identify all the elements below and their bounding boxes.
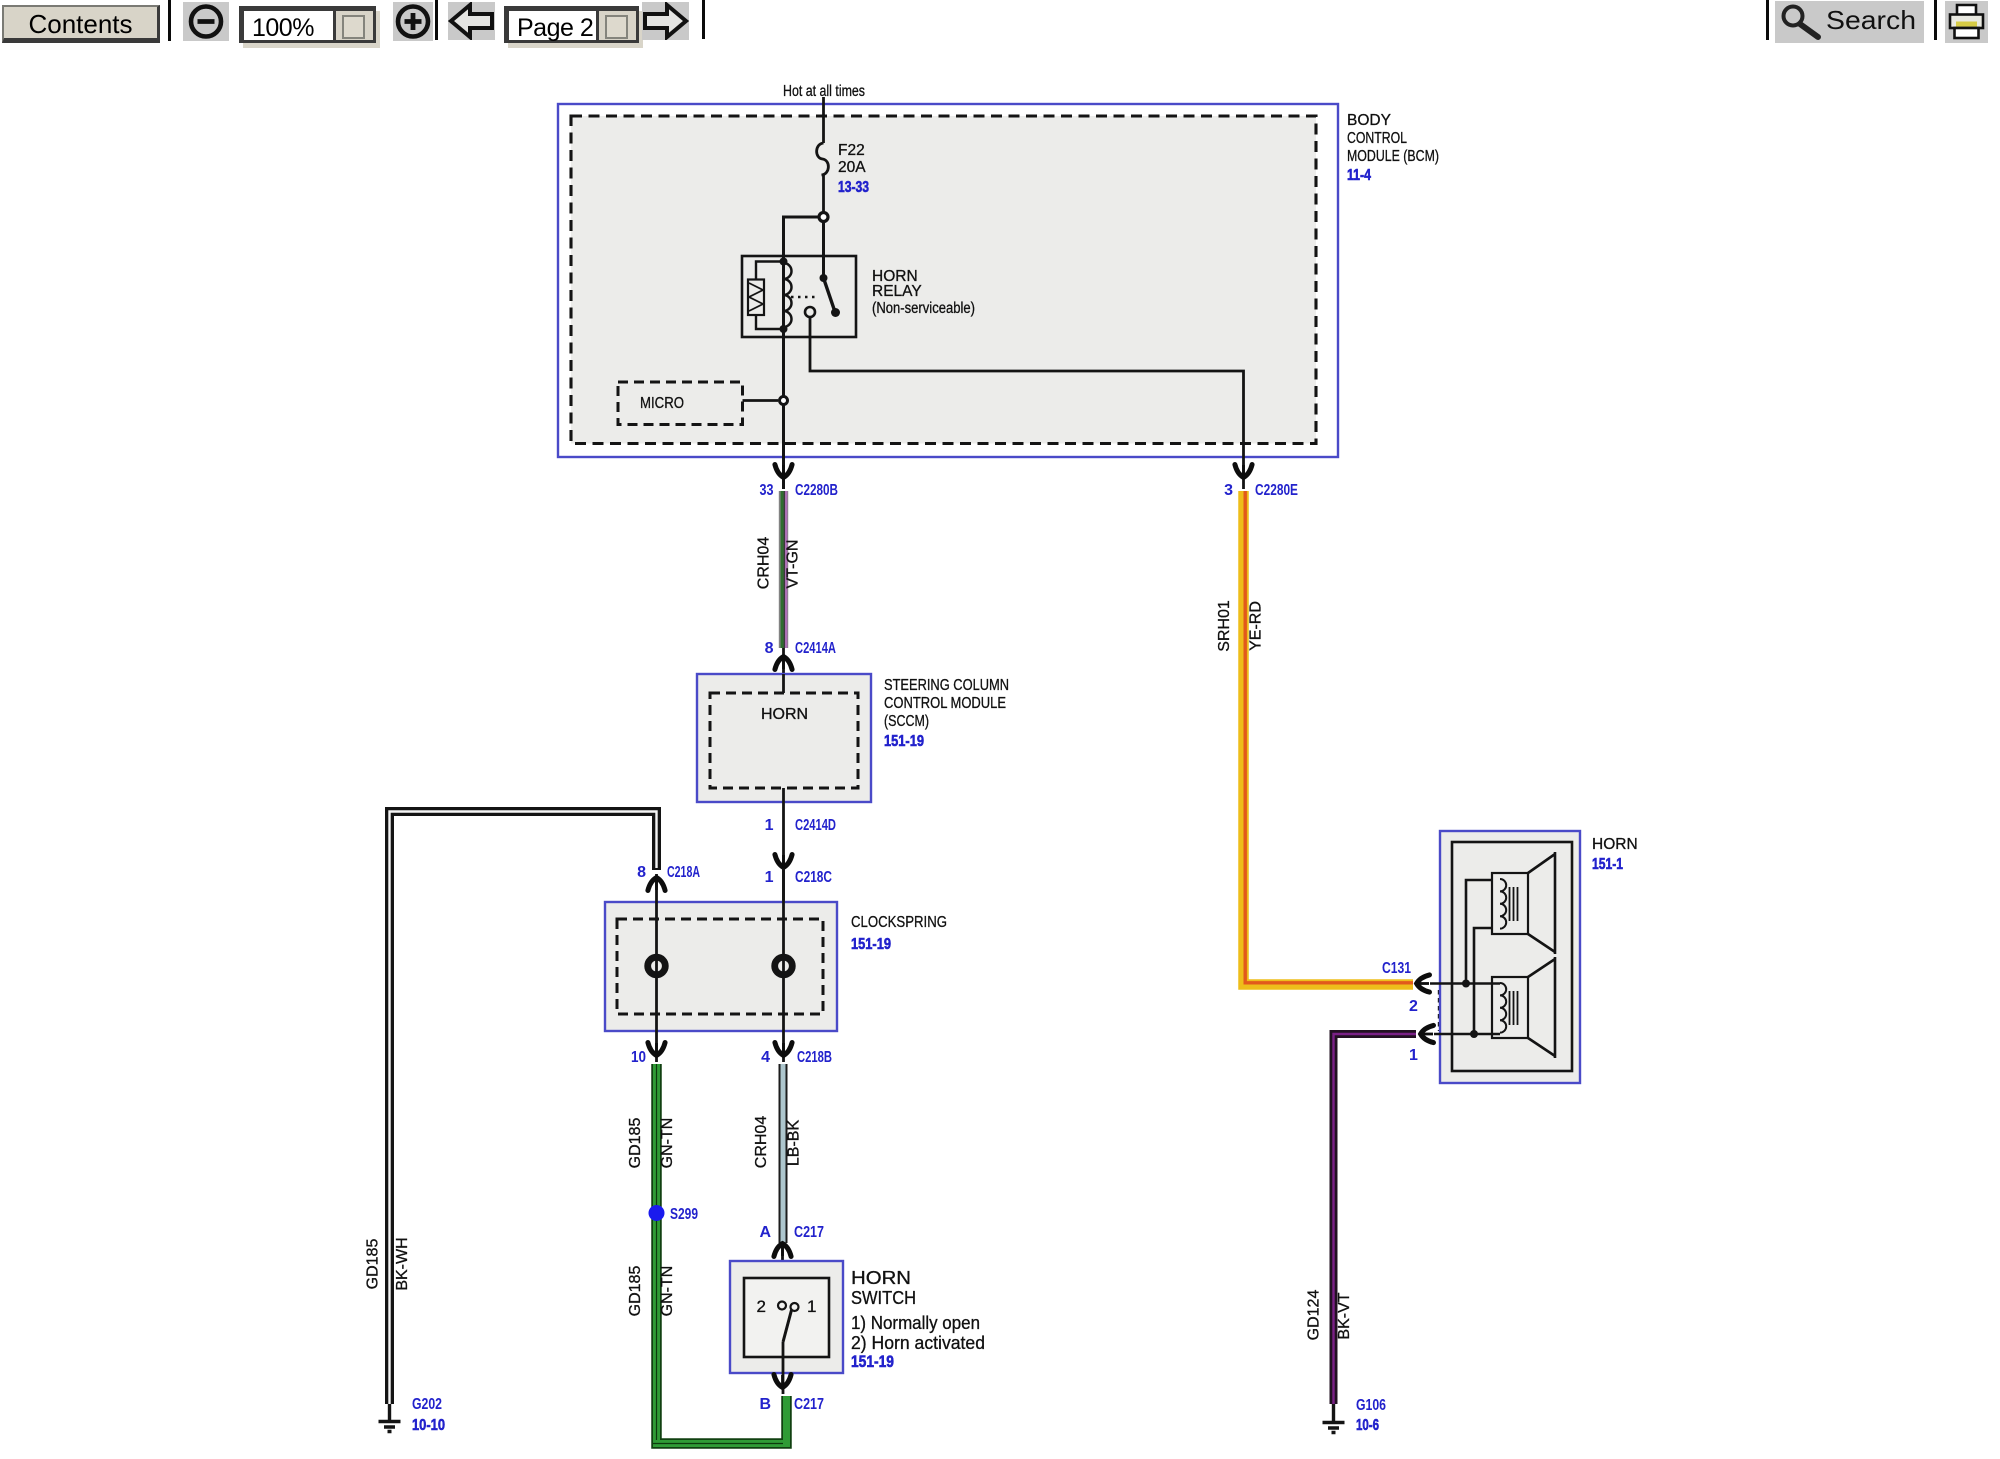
- svg-text:HORN: HORN: [1592, 836, 1638, 853]
- svg-text:151-19: 151-19: [851, 1353, 894, 1371]
- svg-text:11-4: 11-4: [1347, 167, 1371, 184]
- svg-text:C218A: C218A: [667, 864, 700, 881]
- svg-text:C218B: C218B: [797, 1049, 832, 1066]
- svg-text:1: 1: [765, 817, 774, 834]
- svg-text:B: B: [759, 1396, 771, 1413]
- svg-text:(Non-serviceable): (Non-serviceable): [872, 300, 975, 317]
- svg-text:CONTROL MODULE: CONTROL MODULE: [884, 695, 1006, 712]
- svg-text:2: 2: [1409, 998, 1418, 1015]
- svg-text:1) Normally open: 1) Normally open: [851, 1313, 980, 1333]
- svg-text:C218C: C218C: [795, 869, 832, 886]
- svg-text:20A: 20A: [838, 159, 866, 176]
- svg-text:4: 4: [761, 1049, 770, 1066]
- svg-text:10-10: 10-10: [412, 1417, 445, 1434]
- svg-text:C2414D: C2414D: [795, 817, 836, 834]
- svg-text:CONTROL: CONTROL: [1347, 130, 1407, 147]
- svg-text:(SCCM): (SCCM): [884, 713, 929, 730]
- svg-text:8: 8: [637, 864, 646, 881]
- svg-text:BODY: BODY: [1347, 112, 1391, 129]
- svg-text:C217: C217: [794, 1396, 824, 1413]
- svg-text:GD185: GD185: [365, 1239, 382, 1290]
- svg-text:C131: C131: [1382, 960, 1411, 977]
- svg-text:GN-TN: GN-TN: [659, 1266, 676, 1317]
- svg-text:G202: G202: [412, 1396, 442, 1413]
- svg-text:151-19: 151-19: [884, 733, 924, 750]
- svg-text:C217: C217: [794, 1224, 824, 1241]
- svg-text:HORN: HORN: [851, 1268, 911, 1288]
- svg-text:10-6: 10-6: [1356, 1417, 1379, 1434]
- svg-text:1: 1: [1409, 1047, 1418, 1064]
- svg-text:SRH01: SRH01: [1216, 600, 1233, 652]
- svg-text:VT-GN: VT-GN: [785, 540, 802, 589]
- svg-text:RELAY: RELAY: [872, 283, 922, 300]
- svg-text:F22: F22: [838, 142, 865, 159]
- svg-text:LB-BK: LB-BK: [786, 1120, 803, 1167]
- svg-text:C2280E: C2280E: [1255, 482, 1298, 499]
- svg-text:S299: S299: [670, 1206, 698, 1223]
- svg-text:GN-TN: GN-TN: [659, 1118, 676, 1169]
- svg-text:CLOCKSPRING: CLOCKSPRING: [851, 914, 947, 931]
- svg-text:151-1: 151-1: [1592, 856, 1623, 873]
- svg-text:G106: G106: [1356, 1397, 1386, 1414]
- svg-text:BK-VT: BK-VT: [1336, 1292, 1353, 1339]
- svg-text:13-33: 13-33: [838, 179, 869, 196]
- svg-text:MICRO: MICRO: [640, 395, 684, 412]
- svg-text:8: 8: [765, 640, 774, 657]
- svg-text:BK-WH: BK-WH: [394, 1237, 411, 1290]
- svg-text:HORN: HORN: [761, 706, 808, 723]
- svg-text:C2280B: C2280B: [795, 482, 838, 499]
- svg-text:CRH04: CRH04: [756, 537, 773, 590]
- svg-text:10: 10: [631, 1049, 646, 1066]
- svg-text:33: 33: [760, 482, 774, 499]
- svg-text:C2414A: C2414A: [795, 640, 836, 657]
- svg-text:2: 2: [757, 1297, 766, 1316]
- svg-text:GD185: GD185: [627, 1118, 644, 1169]
- svg-text:1: 1: [765, 869, 774, 886]
- svg-text:A: A: [759, 1224, 771, 1241]
- svg-text:CRH04: CRH04: [753, 1116, 770, 1169]
- svg-text:STEERING COLUMN: STEERING COLUMN: [884, 677, 1009, 694]
- svg-text:YE-RD: YE-RD: [1248, 601, 1265, 651]
- svg-text:SWITCH: SWITCH: [851, 1288, 916, 1308]
- svg-text:2) Horn activated: 2) Horn activated: [851, 1333, 985, 1353]
- svg-text:GD185: GD185: [627, 1266, 644, 1317]
- svg-text:1: 1: [807, 1297, 816, 1316]
- svg-text:GD124: GD124: [1306, 1290, 1323, 1341]
- svg-text:MODULE (BCM): MODULE (BCM): [1347, 148, 1439, 165]
- svg-text:3: 3: [1224, 482, 1233, 499]
- svg-text:151-19: 151-19: [851, 936, 891, 953]
